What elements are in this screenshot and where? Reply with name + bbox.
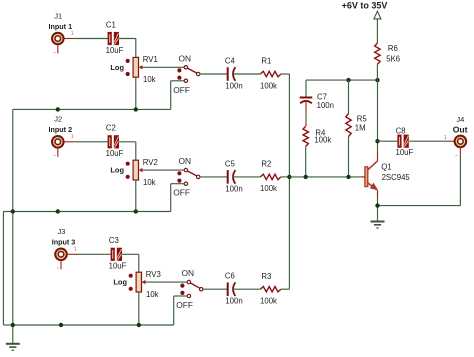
svg-text:Log: Log	[110, 166, 124, 175]
wire channel 3 ground bus	[13, 212, 174, 326]
wire collector to C8	[378, 140, 398, 142]
pin ~ stub of J3	[56, 260, 61, 272]
junction J1 drop	[56, 107, 60, 111]
wire RV1 wiper to switch ON	[143, 66, 184, 68]
wire RV1 to ground bus	[135, 77, 137, 109]
svg-text:Input 1: Input 1	[49, 22, 73, 31]
junction summing/base	[287, 175, 291, 179]
pin ~ stub of J4	[455, 147, 461, 160]
svg-text:1: 1	[71, 31, 74, 37]
wire summing vertical node	[288, 74, 290, 289]
resistor R2 100k	[260, 160, 281, 194]
switch SW1 ON/OFF	[173, 53, 200, 95]
wire R2 to summing node	[281, 176, 290, 178]
svg-text:100n: 100n	[225, 184, 242, 193]
svg-text:Out: Out	[453, 124, 468, 134]
svg-text:~: ~	[53, 50, 56, 56]
wire R5 top lead	[348, 80, 350, 113]
svg-text:C1: C1	[106, 20, 116, 29]
svg-text:J4: J4	[456, 115, 464, 124]
svg-text:RV3: RV3	[146, 270, 161, 279]
wire C8 to J4	[409, 140, 455, 142]
wire J3 to C3	[78, 253, 111, 255]
wire vcc to R6	[376, 19, 378, 43]
pin 1 stub of J2	[63, 134, 75, 142]
connector J1 Input 1	[49, 11, 73, 44]
svg-text:100k: 100k	[314, 136, 331, 145]
svg-text:R1: R1	[261, 57, 271, 66]
svg-text:100k: 100k	[260, 81, 277, 90]
wire R5 to base node	[348, 137, 350, 177]
svg-text:OFF: OFF	[173, 85, 190, 95]
wire channel 2 ground bus	[3, 212, 170, 326]
potentiometer RV3 10k Log	[113, 270, 160, 299]
svg-text:C3: C3	[109, 236, 119, 245]
capacitor C8 10uF	[396, 127, 414, 158]
wire RV3 to ground bus	[138, 292, 140, 325]
wire SW2 to C5	[200, 176, 228, 178]
junction R5 top	[346, 78, 350, 82]
svg-text:Q1: Q1	[381, 162, 391, 171]
wire C4 to R1	[232, 73, 260, 75]
svg-text:10k: 10k	[146, 290, 159, 299]
svg-text:10uF: 10uF	[396, 148, 414, 157]
supply +6V to 35V	[342, 1, 388, 11]
svg-text:10uF: 10uF	[106, 46, 124, 55]
wire emitter to ground	[377, 198, 379, 221]
junction collector top	[375, 78, 379, 82]
junction RV1 drop	[134, 107, 138, 111]
wire SW1 to C4	[200, 73, 228, 75]
svg-text:10k: 10k	[143, 75, 156, 84]
junction rail ch3	[11, 323, 15, 327]
switch SW3 ON/OFF	[176, 268, 203, 310]
svg-text:J2: J2	[54, 115, 62, 124]
svg-text:C8: C8	[396, 127, 406, 136]
svg-text:10uF: 10uF	[106, 149, 124, 158]
svg-text:OFF: OFF	[176, 300, 193, 310]
capacitor C1 10uF	[106, 20, 124, 55]
pin 1 label of J4	[444, 135, 447, 141]
connector J4 Out	[453, 115, 468, 147]
wire J4 ground drop	[378, 155, 461, 205]
junction C8 tap	[375, 139, 379, 143]
resistor R1 100k	[260, 57, 281, 91]
svg-text:1: 1	[71, 134, 74, 140]
svg-text:RV2: RV2	[143, 158, 158, 167]
capacitor C7 100n	[300, 93, 334, 110]
wire SW2 OFF to ground bus	[171, 184, 185, 212]
wire C1 to RV1	[119, 39, 136, 58]
svg-text:10k: 10k	[143, 178, 156, 187]
svg-text:C6: C6	[225, 272, 235, 281]
wire SW3 to C6	[203, 288, 228, 290]
svg-text:100n: 100n	[225, 81, 242, 90]
wire collector node	[377, 80, 379, 152]
wire R6 to collector node	[376, 64, 378, 80]
svg-text:J1: J1	[54, 11, 62, 20]
resistor R6 5K6	[375, 43, 400, 64]
junction RV2 drop	[134, 209, 138, 213]
wire C7/R5 top to collector	[306, 80, 378, 97]
svg-text:2SC945: 2SC945	[382, 173, 411, 182]
wire J1 to C1	[75, 38, 108, 40]
junction J2 drop	[56, 209, 60, 213]
svg-text:100n: 100n	[225, 297, 242, 306]
svg-text:100k: 100k	[260, 184, 277, 193]
svg-text:1M: 1M	[355, 124, 366, 133]
junction J3 drop	[59, 323, 63, 327]
potentiometer RV1 10k Log	[110, 55, 157, 84]
svg-text:C2: C2	[106, 124, 116, 133]
wire RV2 wiper to switch ON	[143, 169, 184, 171]
svg-text:10uF: 10uF	[109, 262, 127, 271]
capacitor C5 100n	[225, 159, 243, 193]
wire channel 1 ground bus	[13, 109, 171, 211]
capacitor C2 10uF	[106, 124, 124, 159]
svg-text:5K6: 5K6	[386, 54, 400, 63]
svg-text:R2: R2	[261, 160, 271, 169]
svg-text:ON: ON	[179, 53, 192, 63]
wire C3 to RV3	[122, 254, 139, 272]
svg-text:100k: 100k	[260, 297, 277, 306]
svg-text:~: ~	[455, 154, 458, 160]
wire C2 to RV2	[119, 142, 136, 160]
junction emitter node	[375, 203, 379, 207]
svg-text:100n: 100n	[317, 101, 334, 110]
junction RV3 drop	[137, 323, 141, 327]
svg-text:1: 1	[444, 135, 447, 141]
switch SW2 ON/OFF	[173, 156, 200, 198]
resistor R5 1M	[346, 114, 368, 137]
wire C6 to R3	[232, 288, 260, 290]
ground at emitter	[371, 222, 385, 228]
wire base node to Q1	[289, 176, 360, 178]
wire RV3 wiper to switch ON	[146, 281, 187, 283]
wire C7 to R4	[305, 102, 307, 127]
potentiometer RV2 10k Log	[110, 158, 157, 187]
wire R3 to summing node	[281, 288, 290, 290]
wire R4 to base node	[305, 146, 307, 177]
svg-text:C5: C5	[225, 159, 236, 168]
wire rail to ground	[12, 325, 14, 344]
svg-text:R6: R6	[388, 44, 398, 53]
capacitor C3 10uF	[109, 236, 127, 271]
svg-text:Input 2: Input 2	[49, 125, 73, 134]
pin ~ stub of J1	[53, 44, 58, 56]
svg-text:ON: ON	[182, 268, 195, 278]
wire RV2 to ground bus	[135, 180, 137, 212]
svg-text:R3: R3	[261, 272, 271, 281]
svg-text:Input 3: Input 3	[52, 238, 76, 247]
svg-text:1: 1	[74, 247, 77, 253]
svg-text:Log: Log	[110, 63, 124, 72]
capacitor C4 100n	[225, 57, 243, 91]
resistor R4 100k	[303, 126, 331, 146]
vcc symbol	[374, 11, 381, 19]
wire C5 to R2	[232, 176, 260, 178]
junction rail ch2	[11, 209, 15, 213]
wire J2 to C2	[75, 141, 108, 143]
wire R1 to summing node	[281, 73, 290, 75]
svg-text:~: ~	[56, 266, 59, 272]
pin ~ stub of J2	[53, 147, 58, 159]
svg-text:R5: R5	[357, 115, 368, 124]
junction R5 bottom	[346, 175, 350, 179]
svg-text:Log: Log	[113, 278, 127, 287]
connector J2 Input 2	[49, 115, 73, 148]
svg-text:+6V to 35V: +6V to 35V	[342, 1, 388, 11]
svg-text:C4: C4	[225, 57, 236, 66]
wire SW3 OFF to ground bus	[174, 296, 188, 325]
junction R4 bottom	[304, 175, 308, 179]
transistor Q1 2SC945	[360, 152, 410, 198]
connector J3 Input 3	[52, 227, 76, 260]
wire SW1 OFF to ground bus	[171, 81, 185, 110]
svg-text:ON: ON	[179, 156, 192, 166]
capacitor C6 100n	[225, 272, 243, 306]
svg-text:~: ~	[53, 154, 56, 160]
pin 1 stub of J3	[67, 247, 79, 255]
svg-text:J3: J3	[57, 227, 65, 236]
pin 1 stub of J1	[63, 31, 75, 39]
resistor R3 100k	[260, 272, 281, 306]
ground	[6, 344, 20, 350]
svg-text:RV1: RV1	[143, 55, 158, 64]
svg-text:OFF: OFF	[173, 188, 190, 198]
